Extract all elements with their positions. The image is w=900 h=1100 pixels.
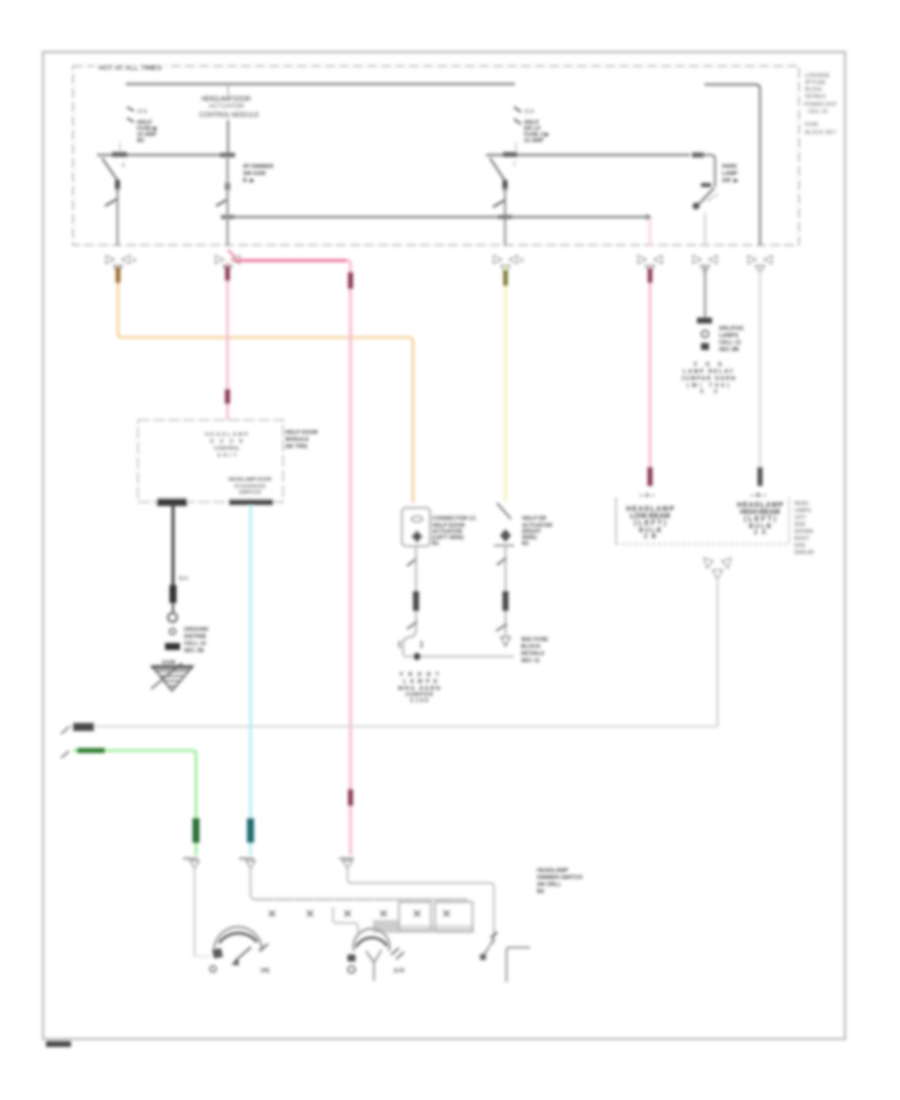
label nub YEL: [503, 270, 508, 286]
label nub M2 wire: [413, 591, 419, 611]
bus2 end arrow: [646, 214, 652, 221]
svg-text:SHOWN: SHOWN: [794, 529, 814, 535]
svg-text:5: 5: [122, 163, 125, 169]
bottom connector at green: [183, 857, 198, 859]
tick on wire A: [216, 199, 228, 206]
svg-text:HEADLAMP: HEADLAMP: [205, 432, 248, 438]
junction wire horizontal: [403, 653, 514, 657]
inline connector C4 at x650: [638, 256, 662, 274]
svg-text:BLOCK: BLOCK: [521, 644, 541, 650]
terminal diamond M2: [411, 530, 423, 543]
svg-text:PARK: PARK: [722, 164, 737, 170]
svg-text:FUSE: FUSE: [805, 122, 819, 128]
rheostat left blob: [212, 948, 223, 959]
svg-text:SEC 8B: SEC 8B: [719, 347, 739, 353]
rheostat right tick: [259, 944, 268, 951]
svg-text:FUSE ▶: FUSE ▶: [137, 125, 158, 132]
switch SW3 pivot blob: [692, 153, 704, 158]
terminal bar M1 left: [157, 498, 187, 506]
page corner mark: [46, 1041, 71, 1047]
strip top dashes: [256, 899, 468, 901]
fuse F1 element: [127, 107, 134, 111]
label nub ORN: [116, 267, 121, 283]
fuse F2 label: [524, 109, 550, 144]
switch SW3 contact: [693, 203, 700, 210]
wire orange ORN: [118, 266, 413, 503]
splice square S1: [701, 343, 709, 350]
long return line: [67, 726, 718, 728]
svg-text:CONNECTOR C1: CONNECTOR C1: [432, 516, 476, 522]
svg-text:B1: B1: [522, 541, 529, 547]
svg-text:BLOCK: BLOCK: [805, 87, 823, 93]
splice bar S1: [697, 318, 712, 324]
svg-text:JUMPER HARN: JUMPER HARN: [681, 376, 735, 382]
lamp center circle: [348, 966, 355, 973]
svg-text:SEC 2B: SEC 2B: [184, 648, 204, 654]
svg-text:HEADLAMP: HEADLAMP: [626, 506, 674, 513]
svg-text:— B —: — B —: [750, 493, 766, 499]
lamp box B3 bottom: [616, 543, 789, 545]
terminal base line YEL: [494, 545, 514, 547]
svg-text:RIGHT: RIGHT: [794, 536, 810, 542]
svg-text:BULB: BULB: [639, 528, 662, 534]
label M1 right: [285, 430, 318, 450]
label nub PNK B: [225, 389, 230, 404]
rheostat left label: [210, 966, 216, 972]
wire pink PNK650: [649, 266, 652, 468]
label under S1: [681, 362, 735, 395]
label nub YEL wire: [503, 591, 509, 611]
gray fill under cell4: [373, 920, 399, 933]
svg-text:GROUND: GROUND: [184, 627, 208, 633]
green line arrow: [61, 751, 69, 758]
rheostat dark top: [219, 933, 257, 943]
inline connector C2 at x228: [216, 256, 240, 274]
svg-text:DETAILS: DETAILS: [521, 651, 544, 657]
wire drop green gray: [193, 868, 195, 956]
rheostat needle arrowhead: [231, 959, 239, 966]
label right of S1: [719, 326, 744, 353]
switch SW2 contact nub: [503, 180, 508, 190]
svg-text:SEE FUSE: SEE FUSE: [521, 637, 549, 643]
label pin PNK650: [639, 493, 655, 499]
wire black BLK: [172, 506, 175, 585]
splice circle S2a: [168, 613, 177, 622]
svg-text:MODULE: MODULE: [285, 437, 309, 443]
svg-text:G105: G105: [162, 660, 175, 666]
label M2 right: [432, 516, 476, 547]
label nub PNK C: [348, 272, 353, 289]
svg-text:SW ▶: SW ▶: [722, 177, 739, 184]
svg-text:15 A: 15 A: [524, 109, 535, 115]
label nub GRN v: [193, 818, 200, 843]
wire SW1 to connector: [116, 188, 118, 246]
svg-text:D: D: [520, 258, 524, 264]
lamp center arc dark top: [356, 938, 387, 947]
switch SW3 nub: [701, 183, 711, 187]
svg-text:15 A: 15 A: [137, 109, 148, 115]
svg-text:CONTROL MODULE: CONTROL MODULE: [199, 112, 259, 119]
svg-text:15 AMP: 15 AMP: [524, 138, 544, 144]
label block headlamp feed: [199, 96, 259, 119]
svg-text:LAMP: LAMP: [722, 171, 738, 177]
svg-text:B ▶: B ▶: [243, 177, 255, 184]
return line arrow: [61, 727, 69, 734]
rheostat needle: [235, 947, 251, 961]
label nub WHT end: [758, 467, 763, 486]
svg-text:CONTROL: CONTROL: [214, 446, 241, 452]
lamp center lead: [373, 963, 375, 982]
svg-text:HEADLAMP DOOR: HEADLAMP DOOR: [228, 477, 272, 483]
hook bend to junction: [403, 630, 416, 653]
label right column: [804, 73, 837, 136]
tick YEL wire a: [497, 558, 506, 565]
splice blob S2: [165, 643, 180, 650]
wire below M2: [415, 546, 417, 631]
svg-text:LEFT: LEFT: [794, 515, 806, 521]
connector parens: [399, 641, 401, 648]
svg-text:CELL 10: CELL 10: [808, 109, 827, 115]
label B3 right column: [794, 501, 814, 556]
lamp center square: [348, 955, 356, 962]
inline connector C6 at x760: [748, 256, 772, 274]
inline connector C3 at x505: [494, 256, 518, 274]
svg-text:B1: B1: [432, 541, 439, 547]
terminal bar M1 right: [229, 499, 273, 505]
lamp stack right: [737, 502, 783, 536]
svg-text:(HI): (HI): [261, 968, 270, 974]
label nub PNK650 top: [648, 268, 653, 283]
wire gray 705: [704, 266, 706, 318]
wire red long drop: [347, 261, 351, 856]
switch SW3 blade: [697, 188, 714, 206]
junction dot: [413, 653, 420, 660]
tick M2 wire b: [407, 622, 417, 629]
tick YEL wire b: [496, 624, 507, 631]
wire white 760: [759, 266, 761, 468]
lamp center arc: [354, 929, 390, 951]
tick on SW1 wire: [105, 199, 117, 206]
label nub PNK A: [225, 266, 230, 281]
svg-text:SWITCH: SWITCH: [239, 490, 261, 496]
label nub CYN: [247, 818, 254, 843]
label right of wire A: [243, 164, 273, 184]
wire BLK lower: [172, 603, 174, 612]
terminal box 5: [399, 902, 431, 931]
wire red vertical to module: [226, 262, 229, 420]
label nub PNK650 end: [648, 467, 653, 486]
bottom connector at red: [339, 857, 354, 859]
svg-text:HIGH-BEAM: HIGH-BEAM: [740, 509, 780, 516]
wire SW2 down: [504, 188, 506, 246]
rheostat feed: [195, 956, 213, 958]
fuse F2 stub: [515, 142, 517, 154]
svg-text:CELL 12: CELL 12: [719, 340, 741, 346]
svg-text:DISTRIB: DISTRIB: [184, 634, 206, 640]
svg-text:B6: B6: [537, 889, 544, 895]
svg-text:(LO): (LO): [394, 968, 405, 974]
label YEL terminal: [522, 516, 552, 547]
fuse F2 element: [514, 107, 521, 112]
bottom switch blade: [482, 938, 495, 958]
svg-text:LOW-BEAM: LOW-BEAM: [630, 513, 670, 520]
svg-text:DRL/FOG: DRL/FOG: [719, 326, 744, 332]
svg-text:HEADLAMP: HEADLAMP: [537, 868, 568, 874]
wire cyan: [249, 505, 252, 855]
junction blob bus2 x505: [498, 215, 512, 219]
switch bus right: [486, 154, 690, 156]
label M1 lower: [228, 477, 272, 496]
switch SW2 blade: [490, 158, 505, 181]
label SW3: [722, 164, 739, 184]
return line label: [73, 723, 94, 731]
svg-text:UNIT: UNIT: [217, 453, 238, 459]
svg-text:SIMILAR: SIMILAR: [794, 550, 814, 556]
switch SW1 contact nub: [115, 180, 120, 190]
wire pink stub from bus2: [649, 219, 651, 246]
svg-text:7: 7: [513, 162, 516, 168]
svg-text:HEAD-: HEAD-: [794, 501, 810, 507]
splice circle S2b: [170, 629, 176, 635]
label pin WHT: [750, 493, 766, 499]
wire yellow YEL: [504, 266, 507, 502]
svg-text:— A —: — A —: [639, 493, 655, 499]
label nub PNK D: [348, 789, 353, 806]
switch SW1 pivot: [112, 152, 127, 157]
svg-text:SIDE: SIDE: [794, 543, 806, 549]
svg-text:POWER DIST: POWER DIST: [804, 102, 837, 108]
terminal box 6: [435, 902, 473, 932]
Y connector below B3: [704, 558, 731, 579]
inline connector C5 at x705: [693, 256, 717, 274]
svg-text:LUGGAGE: LUGGAGE: [805, 73, 830, 79]
switch SW1 blade: [102, 158, 118, 181]
ground G105: [151, 663, 193, 691]
svg-text:FUSE 2 ▶: FUSE 2 ▶: [524, 131, 550, 138]
bottom switch faint tick: [488, 941, 495, 948]
fuse block dashed box: [73, 66, 799, 245]
bottom switch label: [537, 868, 583, 895]
module box M1: [138, 420, 283, 502]
arrow end YEL wire: [501, 637, 510, 646]
gray band under boxes: [399, 925, 474, 933]
label M1 inside top: [205, 432, 248, 459]
wire red kink at C2: [228, 250, 236, 258]
label nub GRN h: [77, 748, 105, 753]
bottom switch tick: [491, 932, 497, 938]
bottom connector at cyan: [239, 857, 254, 859]
tick M2 wire a: [407, 559, 416, 566]
svg-text:HDLP DR: HDLP DR: [522, 516, 546, 522]
wire green horizontal: [73, 751, 196, 856]
rheostat arc: [214, 927, 262, 951]
junction blob bus2 x228: [221, 215, 234, 219]
svg-text:B2: B2: [137, 138, 144, 144]
tick on SW2 wire: [493, 200, 505, 207]
splice circle S1: [702, 331, 709, 338]
lamp stack left: [626, 506, 674, 540]
lamp center ticks: [391, 948, 399, 955]
switch bus left: [97, 154, 228, 156]
wire drop red gray to switch: [348, 868, 495, 936]
bottom switch L contact: [507, 948, 531, 983]
svg-text:HEADLAMP DOOR: HEADLAMP DOOR: [201, 96, 251, 103]
label right of junction: [521, 637, 549, 664]
bus wire 2: [228, 216, 647, 218]
junction bus2 x228: [226, 156, 228, 246]
label below junction: [398, 672, 440, 704]
svg-text:ACTUATOR: ACTUATOR: [209, 104, 245, 110]
terminal diamond YEL: [500, 529, 511, 542]
wire from Y down: [716, 581, 718, 727]
fuse block label: [95, 61, 165, 71]
inline connector C1 at x118: [106, 256, 130, 274]
lamp center filament: [366, 951, 374, 963]
lamp box B3 left edge: [615, 497, 617, 544]
fuse F1 stub: [119, 142, 121, 154]
bus wire top: [126, 83, 515, 85]
terminal oval M2: [412, 516, 423, 522]
svg-text:LAMPS: LAMPS: [719, 333, 739, 339]
fuse F1 label: [137, 109, 158, 144]
connector box M2 on orange wire: [402, 508, 430, 546]
lamp box B3 right edge: [788, 497, 790, 544]
svg-text:DETAILS: DETAILS: [805, 94, 826, 100]
svg-text:BULB: BULB: [749, 524, 772, 530]
label nub BLK: [170, 585, 177, 603]
terminal x marks: [269, 911, 450, 917]
wire from label to switch bus: [227, 120, 229, 156]
svg-text:SW ASM: SW ASM: [243, 171, 266, 177]
svg-text:I/P FUSE: I/P FUSE: [805, 80, 826, 86]
svg-text:CELL 14: CELL 14: [184, 641, 207, 647]
switch SW3 drop: [702, 155, 715, 187]
junction blob bus1b x228: [220, 153, 235, 158]
wire stub node A: [227, 85, 229, 96]
svg-text:HDLP DOOR: HDLP DOOR: [285, 430, 318, 436]
wire red horizontal PNK: [234, 259, 347, 262]
label right of S2: [184, 627, 208, 654]
svg-text:DIMMER SWITCH: DIMMER SWITCH: [537, 875, 583, 881]
svg-text:(W/ TR9): (W/ TR9): [285, 444, 307, 450]
svg-text:HOT AT ALL TIMES: HOT AT ALL TIMES: [98, 63, 162, 72]
wire drop cyan gray to strip: [251, 868, 469, 900]
svg-text:BLOCK DET: BLOCK DET: [805, 130, 836, 136]
wire L right feed: [705, 85, 761, 247]
svg-text:I/P DIMMER: I/P DIMMER: [243, 164, 273, 170]
page border frame: [43, 52, 845, 1039]
svg-text:LAMPS: LAMPS: [794, 508, 812, 514]
bottom switch contact: [480, 954, 487, 961]
wire below YEL: [504, 546, 506, 636]
nub on wire A: [225, 183, 230, 190]
svg-text:(W/ T96): (W/ T96): [687, 383, 729, 389]
svg-text:SIDE: SIDE: [794, 522, 806, 528]
switch SW3 faint tick: [707, 194, 718, 201]
svg-text:LAMP RELAY: LAMP RELAY: [683, 369, 733, 375]
svg-text:SEC 11: SEC 11: [521, 658, 540, 664]
wire SW3 to connector: [704, 213, 706, 246]
svg-text:BLK: BLK: [179, 576, 189, 582]
svg-text:(W/ DRL): (W/ DRL): [537, 882, 560, 888]
strip drop squiggle: [333, 907, 358, 936]
switch SW2 pivot: [503, 152, 517, 157]
blade on yellow end: [497, 503, 511, 519]
svg-text:HEADLAMP: HEADLAMP: [737, 502, 783, 509]
